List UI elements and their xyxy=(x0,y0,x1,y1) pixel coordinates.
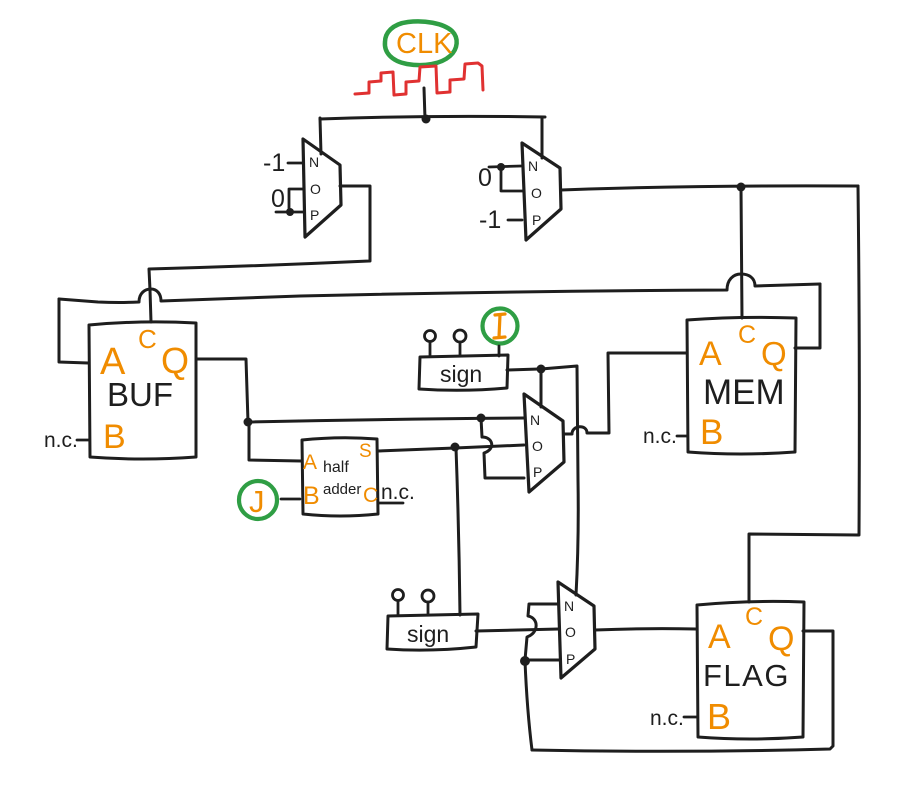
svg-text:MEM: MEM xyxy=(703,373,785,412)
wire -1 stub to U2 xyxy=(508,219,522,222)
wire select to right mux xyxy=(541,117,544,158)
wire sign1 out to mid mux select xyxy=(507,369,541,407)
junction dot N line branch xyxy=(477,414,486,423)
block half adder box xyxy=(302,438,378,516)
wire 0 to U2 N and O loop xyxy=(489,166,523,191)
svg-text:N: N xyxy=(528,158,538,174)
svg-text:BUF: BUF xyxy=(107,376,173,413)
wire U1 output to BUF C xyxy=(149,186,370,322)
svg-text:sign: sign xyxy=(440,361,482,387)
label I (orange drawn) xyxy=(494,314,505,338)
svg-text:C: C xyxy=(138,324,157,354)
svg-text:n.c.: n.c. xyxy=(44,429,78,452)
wire U4 P input from junction xyxy=(525,659,560,662)
svg-text:N: N xyxy=(530,412,540,428)
svg-text:FLAG: FLAG xyxy=(703,658,790,693)
junction dot U2 output branch xyxy=(737,183,746,192)
svg-text:Q: Q xyxy=(768,620,794,658)
wire -1 stub to U1 xyxy=(288,162,302,165)
svg-text:A: A xyxy=(699,335,722,373)
svg-text:CLK: CLK xyxy=(396,28,453,60)
wire feedback bus MEM Q to BUF A (with hops) xyxy=(59,274,820,303)
wire branch down to half adder A xyxy=(249,423,301,461)
svg-text:B: B xyxy=(707,696,731,737)
junction CLK bus dot xyxy=(422,115,431,124)
svg-text:O: O xyxy=(565,624,576,640)
junction dot U4 N-P node xyxy=(520,656,530,666)
wire S branch down to sign2 input xyxy=(456,448,460,615)
svg-text:C: C xyxy=(738,321,756,349)
wire U3 output to MEM A (hop over vertical) xyxy=(564,353,686,434)
svg-text:0: 0 xyxy=(271,185,285,213)
svg-text:n.c.: n.c. xyxy=(643,425,677,448)
junction dot U1 0-input xyxy=(286,208,294,216)
node J green circle xyxy=(239,481,277,519)
wire MEM C select drop xyxy=(741,187,742,318)
svg-text:N: N xyxy=(564,598,574,614)
wire select to left mux xyxy=(320,118,321,154)
wire n.c. stub FLAG B xyxy=(684,716,697,719)
svg-text:sign: sign xyxy=(407,621,449,647)
svg-text:Q: Q xyxy=(161,340,189,381)
wire sign1 out to bottom mux select (long vertical) xyxy=(541,366,578,595)
wire I stem xyxy=(498,346,501,356)
terminal sign2 input circle 1 xyxy=(397,602,400,615)
svg-text:P: P xyxy=(533,464,542,480)
wire CLK stem xyxy=(424,88,425,119)
block sign2 box xyxy=(387,614,478,650)
wire BUF Q to mid mux N line xyxy=(196,359,524,422)
terminal sign1 input circle 1 xyxy=(429,342,432,355)
mux U1 left NOP trapezoid xyxy=(303,139,341,237)
svg-text:O: O xyxy=(532,438,543,454)
block FLAG box xyxy=(697,601,804,739)
wire bottom loop to FLAG Q xyxy=(532,631,833,751)
wire n.c. stub half adder C xyxy=(378,502,403,505)
svg-text:-1: -1 xyxy=(479,206,501,234)
svg-text:adder: adder xyxy=(323,481,361,498)
mux U2 right NOP trapezoid xyxy=(522,143,561,240)
svg-text:P: P xyxy=(566,651,575,667)
wire J to half adder B xyxy=(281,498,300,501)
mux U4 bottom NOP trapezoid xyxy=(558,582,595,678)
wire 0 to U1 O and P loop xyxy=(276,189,304,212)
svg-text:C: C xyxy=(363,484,378,507)
svg-text:O: O xyxy=(310,181,321,197)
wire U4 N-P bypass with hop xyxy=(525,604,558,660)
clock waveform (red) xyxy=(355,63,483,95)
node I green circle xyxy=(483,309,518,344)
node CLK label (green ellipse) xyxy=(385,21,457,65)
mux U3 middle NOP trapezoid xyxy=(524,394,564,492)
svg-text:Q: Q xyxy=(761,335,787,372)
wire n.c. stub MEM B xyxy=(677,435,687,438)
junction dot BUF Q branch xyxy=(244,418,253,427)
svg-text:-1: -1 xyxy=(263,149,285,177)
svg-text:A: A xyxy=(708,618,731,656)
svg-text:B: B xyxy=(103,418,126,456)
svg-text:A: A xyxy=(303,451,317,474)
svg-text:P: P xyxy=(532,212,541,228)
wire junction down to bottom loop xyxy=(525,661,532,750)
svg-text:n.c.: n.c. xyxy=(381,481,415,504)
svg-text:O: O xyxy=(531,185,542,201)
svg-text:P: P xyxy=(310,207,319,223)
block sign1 box xyxy=(419,355,508,390)
svg-text:B: B xyxy=(303,482,320,510)
svg-text:J: J xyxy=(249,484,265,519)
wire bus left end down to BUF A xyxy=(59,299,88,363)
terminal sign1 input circle 2 xyxy=(459,342,462,355)
wire U3 N-P bypass with hop xyxy=(481,418,524,478)
svg-text:half: half xyxy=(323,459,349,476)
wire U2 output to far right xyxy=(561,186,858,190)
wire CLK distribution bus xyxy=(320,116,545,119)
block MEM box xyxy=(687,317,796,454)
wire U4 output to FLAG A xyxy=(595,629,696,630)
svg-text:C: C xyxy=(745,603,763,631)
block BUF box xyxy=(89,322,196,459)
terminal sign2 input circle 2 xyxy=(427,602,430,615)
wire sign2 out to bottom mux O xyxy=(476,629,559,631)
wire far right vertical down to FLAG C xyxy=(749,186,859,602)
wire bus right end down to MEM Q xyxy=(795,284,820,348)
wire half adder S to mid mux O xyxy=(378,445,524,451)
junction dot sign1 out xyxy=(537,365,546,374)
svg-text:N: N xyxy=(309,154,319,170)
svg-text:B: B xyxy=(700,413,723,452)
wire n.c. stub BUF B xyxy=(77,439,89,442)
svg-text:S: S xyxy=(359,441,372,462)
junction dot S branch xyxy=(451,443,460,452)
junction dot U2 0-input xyxy=(497,163,505,171)
svg-text:n.c.: n.c. xyxy=(650,707,684,730)
